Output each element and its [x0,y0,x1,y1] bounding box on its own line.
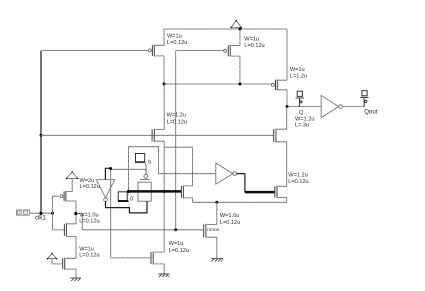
svg-text:L=0.12u: L=0.12u [244,43,264,49]
svg-text:Qout: Qout [364,109,378,116]
port pin clk1 [16,210,29,215]
svg-text:L=.3u: L=.3u [295,123,309,129]
svg-text:W=1.0u: W=1.0u [220,213,239,219]
svg-text:L=1.2u: L=1.2u [290,74,307,80]
wire clk1 horizontal to nmos gates M4 M9 [41,134,274,136]
node junction internal on thick wire [163,190,166,193]
probe on node Qout [360,91,368,107]
svg-text:L=0.12u: L=0.12u [79,218,99,224]
probe 0 symbol [118,192,129,201]
node junction M6 drain on y202 [215,201,218,204]
label clk1 [35,215,46,222]
label M3 [290,67,307,80]
svg-text:W=1u: W=1u [169,241,184,247]
svg-text:nmos: nmos [207,228,219,233]
svg-text:b: b [148,160,151,166]
label M1 [167,33,187,46]
node junction U1 input tap [109,167,112,170]
transistor M1 pmos W=1u L=0.12u [148,29,164,84]
probe b symbol [135,154,146,175]
wire control to switch circle [111,168,146,170]
svg-text:W=2u: W=2u [80,178,95,184]
wire M5 drain vertical [192,147,194,186]
svg-text:L=0.12u: L=0.12u [220,220,240,226]
svg-text:L=0.12u: L=0.12u [169,248,189,254]
ground symbol under M12 [70,278,81,281]
node junction clk1 at y135 [40,134,43,137]
wire U2 output black [237,174,245,193]
transistor M10 pmos clk inverter W=2u [60,178,76,213]
wire clk1 to M1 gate [41,50,148,52]
wire vdd rail [164,28,287,30]
label M12 [79,246,99,258]
wire vdd rail right drop to M3 source [286,29,288,80]
transistor M2 pmos W=1u L=0.12u [224,29,240,84]
node junction clkb inverter output [74,212,77,215]
inverter U3 output stage [321,95,342,117]
svg-text:W=1u: W=1u [244,36,259,42]
vdd supply symbol small bottom left [47,253,58,260]
wire D branch from thick node up and over to inverter U2 input [128,147,215,191]
label 0 [130,197,133,203]
wire internal node vertical x164 down to M7 drain [163,147,165,252]
transistor M3 pmos keeper W=1u L=1.2u rotated [271,79,287,106]
svg-text:clk1: clk1 [35,215,46,222]
label M6 [207,213,240,233]
wire clkb vertical from M2 gate corner down [175,51,177,230]
transistor M7 nmos W=1u L=0.12u [151,252,164,275]
probe on node Q [296,91,304,106]
wire U3 output [343,106,365,108]
node junction clkb at x175 [174,228,177,231]
label M7 [169,241,189,254]
wire control drop to circle [145,169,147,174]
svg-text:W=1.2u: W=1.2u [288,173,307,179]
wire precharge node y84 [164,83,271,85]
inverter U2 pointing right [216,163,237,184]
transistor M8 nmos W=1.2u L=0.12u [275,186,287,202]
wire bottom internal node y202 [193,201,287,203]
svg-text:Q: Q [299,110,304,116]
ground symbol under M7 [158,274,169,277]
transistor M5 nmos [181,185,192,202]
label M2 [244,36,264,49]
node junction inverter input tap [51,212,54,215]
wire thick D line to M5 gate [129,190,182,193]
wire M2 gate segment [176,50,224,52]
label M9 [295,116,314,128]
wire clk inverter input vertical [53,196,65,230]
transistor M6 nmos W=1.0u L=0.12u [204,202,217,258]
svg-text:W=1u: W=1u [167,33,182,39]
node junction clk1 [39,212,42,215]
transistor M12 nmos footer W=1u L=0.12u [63,258,76,278]
wire clk1 port lead [30,212,53,214]
switch top bar [140,179,150,181]
node junction D start [127,190,130,193]
wire M4 source to M5 drain y147 [164,146,192,148]
wire clkd vertical x110 down to M7 gate [111,168,151,258]
wire node Q horizontal [287,106,321,108]
label Qout [364,109,378,116]
label M11 [79,212,99,224]
node junction Q [286,105,289,108]
switch control circle [144,174,148,179]
svg-text:W=1.2u: W=1.2u [167,113,186,119]
label M10 [80,178,100,190]
label M8 [288,173,308,185]
wire thick U2 out to M8 gate [245,191,275,194]
inverter U1 pointing down [96,180,115,202]
wire clkb from inverter out to M6 gate [76,214,204,230]
svg-text:L=0.12u: L=0.12u [167,119,187,125]
label b [148,160,151,166]
svg-text:W=1u: W=1u [290,67,305,73]
transistor M11 nmos clk inverter W=1.0u [64,214,76,259]
transistor M9 nmos W=1.2u L=.3u [274,107,287,187]
wire clk1 left vertical rail (black) [40,51,42,216]
label Q [299,110,304,116]
svg-text:L=0.12u: L=0.12u [80,184,100,190]
ground symbol under M6 [211,258,223,261]
svg-text:L=0.12u: L=0.12u [79,252,99,258]
svg-text:0: 0 [130,197,133,203]
svg-text:W=1.2u: W=1.2u [295,116,314,122]
transistor M4 nmos W=1.2u L=0.12u [152,84,164,147]
vdd supply symbol top [230,20,242,29]
svg-text:L=0.12u: L=0.12u [288,179,308,185]
wire U1 input jog black [105,168,110,179]
svg-text:L=0.12u: L=0.12u [167,40,187,46]
node junction M1 drain y84 [163,83,166,86]
node junction M2 drain y84 [238,83,241,86]
node junction M2 source on vdd rail [238,28,241,31]
vdd supply symbol left [66,171,79,179]
label M4 [167,113,187,126]
switch box S1 [138,182,151,201]
wire vdd to M12 gate [52,259,63,264]
wire U1 output to switch bottom pin black [106,201,148,213]
